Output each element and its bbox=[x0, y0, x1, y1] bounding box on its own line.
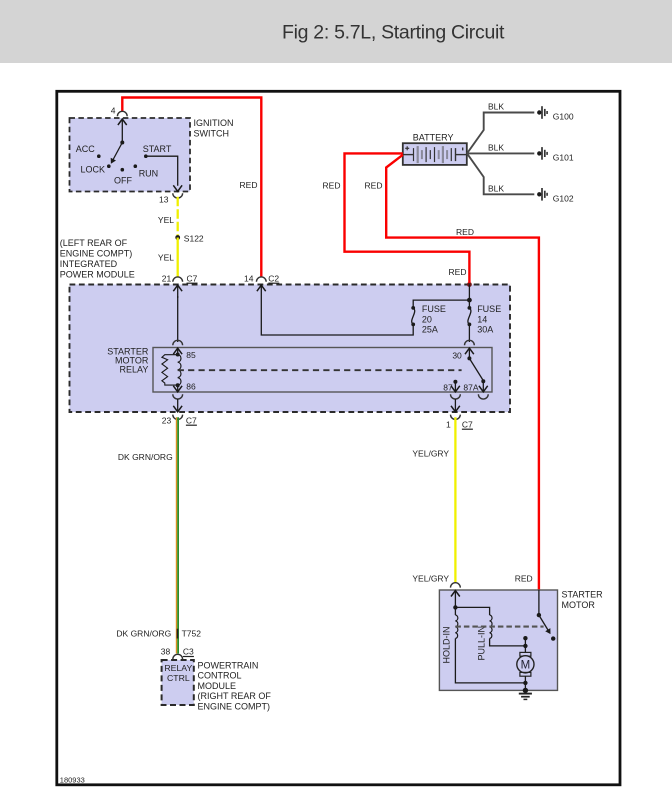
svg-text:G102: G102 bbox=[553, 193, 574, 203]
relay coil winding bbox=[178, 355, 181, 386]
arrow module pin 1 bbox=[451, 406, 460, 412]
svg-text:LOCK: LOCK bbox=[81, 164, 106, 174]
battery box bbox=[403, 143, 467, 165]
battery feed junction dot at module edge bbox=[467, 282, 472, 287]
svg-text:YEL: YEL bbox=[158, 215, 174, 225]
svg-text:CTRL: CTRL bbox=[167, 673, 190, 683]
svg-text:YEL/GRY: YEL/GRY bbox=[412, 449, 449, 459]
wire red battery to module bbox=[345, 153, 470, 283]
arrow starter entry bbox=[451, 591, 460, 597]
svg-text:S122: S122 bbox=[184, 233, 204, 243]
wire battery feed to fuses bbox=[468, 285, 470, 309]
connector arc pin 14 C2 bbox=[256, 277, 266, 282]
battery minus mark bbox=[462, 148, 464, 151]
connector arc pin 85 bbox=[173, 340, 183, 345]
hold-in coil bbox=[454, 607, 456, 615]
connector arc pin 38 C3 bbox=[173, 654, 183, 659]
motor feed node dot bbox=[523, 636, 527, 640]
starter ground symbol bbox=[519, 693, 532, 695]
svg-text:C7: C7 bbox=[187, 273, 198, 283]
starter motor relay box bbox=[153, 348, 492, 393]
relay pin 30 node dot bbox=[467, 356, 471, 360]
wire pull-in to motor bbox=[490, 639, 526, 646]
svg-text:RED: RED bbox=[323, 181, 341, 191]
svg-text:14: 14 bbox=[477, 314, 487, 324]
ground node dot at box edge bbox=[523, 688, 528, 693]
wire red battery to starter bbox=[386, 155, 539, 590]
header band bbox=[0, 0, 672, 63]
svg-text:POWERTRAIN: POWERTRAIN bbox=[198, 661, 259, 671]
svg-text:FUSE: FUSE bbox=[477, 304, 501, 314]
svg-text:INTEGRATED: INTEGRATED bbox=[60, 259, 118, 269]
svg-text:DK GRN/ORG: DK GRN/ORG bbox=[116, 629, 171, 639]
svg-text:ACC: ACC bbox=[76, 144, 96, 154]
svg-text:25A: 25A bbox=[422, 325, 438, 335]
contact dot START bbox=[144, 154, 148, 158]
relay mechanical link bbox=[178, 369, 462, 371]
wire branch to fuse 20 bbox=[413, 300, 469, 308]
wire BLK to G101 bbox=[467, 152, 534, 154]
wire pin 21 to relay pin 85 bbox=[177, 296, 179, 342]
svg-text:20: 20 bbox=[422, 314, 432, 324]
border frame bbox=[57, 91, 620, 785]
wire red entry to switch bbox=[538, 590, 540, 615]
starter switch arm bbox=[539, 615, 549, 631]
wire DK GRN/ORG orange stripe bbox=[176, 417, 178, 653]
svg-text:G101: G101 bbox=[553, 152, 574, 162]
svg-text:87A: 87A bbox=[463, 382, 478, 392]
svg-text:BLK: BLK bbox=[488, 102, 504, 112]
svg-text:IGNITION: IGNITION bbox=[194, 118, 234, 128]
svg-text:G100: G100 bbox=[553, 111, 574, 121]
switch pivot dot bbox=[120, 141, 124, 145]
svg-text:RED: RED bbox=[456, 227, 474, 237]
ignition switch box bbox=[70, 118, 191, 192]
svg-text:RED: RED bbox=[515, 574, 533, 584]
wire motor to ground bbox=[524, 676, 526, 690]
svg-text:ENGINE COMPT): ENGINE COMPT) bbox=[60, 249, 133, 259]
svg-text:21: 21 bbox=[162, 273, 172, 283]
arrow pin 86 bbox=[173, 386, 182, 392]
arrow pin 14 bbox=[257, 285, 266, 291]
svg-text:(RIGHT REAR OF: (RIGHT REAR OF bbox=[198, 691, 272, 701]
wire 87 to module edge bbox=[454, 399, 456, 412]
wire branch to pull-in bbox=[455, 607, 489, 615]
svg-text:YEL/GRY: YEL/GRY bbox=[412, 574, 449, 584]
svg-text:BLK: BLK bbox=[488, 143, 504, 153]
wire motor feed bbox=[524, 638, 526, 652]
svg-text:30A: 30A bbox=[477, 325, 493, 335]
svg-text:STARTER: STARTER bbox=[562, 590, 604, 600]
svg-text:13: 13 bbox=[159, 194, 169, 204]
svg-text:180933: 180933 bbox=[60, 776, 85, 785]
svg-text:C7: C7 bbox=[186, 415, 197, 425]
relay coil pin 86 dot bbox=[176, 383, 180, 387]
starter motor box bbox=[439, 590, 557, 690]
svg-text:ENGINE COMPT): ENGINE COMPT) bbox=[198, 701, 271, 711]
connector arc pin 1 C7 bbox=[451, 415, 461, 420]
svg-text:SWITCH: SWITCH bbox=[194, 129, 230, 139]
arrow pin 13 bbox=[173, 185, 182, 191]
contact dot ACC bbox=[97, 154, 101, 158]
contact dot RUN bbox=[134, 164, 138, 168]
fuse 20 bbox=[411, 306, 415, 310]
pull-in coil bbox=[490, 615, 492, 639]
arrow pin 85 bbox=[173, 348, 182, 354]
fuse 14 bbox=[468, 306, 472, 310]
svg-text:BLK: BLK bbox=[488, 183, 504, 193]
starter switch pivot dot bbox=[537, 613, 541, 617]
junction node fuse feed bbox=[467, 298, 472, 303]
battery plus sign bbox=[405, 147, 409, 149]
contact dot LOCK bbox=[107, 164, 111, 168]
arrow pin 21 bbox=[173, 285, 182, 291]
wire pin 14 to fuse 20 bbox=[261, 285, 413, 335]
svg-text:YEL: YEL bbox=[158, 253, 174, 263]
connector arc starter yellow entry bbox=[451, 583, 461, 588]
svg-text:HOLD-IN: HOLD-IN bbox=[442, 626, 452, 663]
wire pin 87 down bbox=[454, 382, 456, 392]
ground G100 bbox=[537, 110, 541, 114]
svg-text:C3: C3 bbox=[183, 647, 194, 657]
relay contact 87 dot bbox=[453, 380, 457, 384]
wire START to pin 13 bbox=[146, 156, 178, 186]
ground junction dot bbox=[523, 681, 527, 685]
svg-text:RED: RED bbox=[365, 181, 383, 191]
svg-text:86: 86 bbox=[186, 381, 196, 391]
arrow pin 4 bbox=[118, 119, 127, 125]
svg-text:T752: T752 bbox=[182, 629, 202, 639]
battery cells bbox=[403, 154, 414, 156]
wire pin 87A down bbox=[482, 381, 484, 391]
svg-text:Fig 2: 5.7L, Starting Circuit: Fig 2: 5.7L, Starting Circuit bbox=[282, 22, 505, 44]
svg-text:(LEFT REAR OF: (LEFT REAR OF bbox=[60, 238, 128, 248]
wire YEL dashed bbox=[177, 197, 179, 238]
svg-text:M: M bbox=[521, 659, 531, 671]
svg-text:C2: C2 bbox=[268, 273, 279, 283]
starter mechanical link bbox=[455, 626, 543, 628]
svg-text:START: START bbox=[143, 144, 172, 154]
splice S122 bbox=[175, 235, 180, 240]
wire YEL/GRY bbox=[454, 417, 456, 582]
wire fuse 14 to relay pin 30 bbox=[468, 324, 470, 342]
connector arc pin 87 bbox=[451, 394, 461, 399]
wire DK GRN/ORG green bbox=[177, 417, 179, 653]
wire red from ignition pin 4 to pin 14 C2 bbox=[122, 98, 261, 278]
svg-text:OFF: OFF bbox=[114, 175, 132, 185]
svg-text:MODULE: MODULE bbox=[198, 681, 237, 691]
connector arc pin 21 C7 bbox=[173, 277, 183, 282]
connector arc pin 87A bbox=[478, 394, 488, 399]
svg-text:FUSE: FUSE bbox=[422, 304, 446, 314]
svg-text:PULL-IN: PULL-IN bbox=[477, 626, 487, 661]
svg-text:RED: RED bbox=[240, 180, 258, 190]
takeout tick T752 bbox=[177, 629, 179, 639]
svg-text:23: 23 bbox=[162, 415, 172, 425]
wire BLK to G100 bbox=[467, 113, 534, 154]
wire YEL solid bbox=[177, 238, 179, 277]
relay coil resistor bbox=[162, 355, 178, 385]
connector arc pin 4 bbox=[117, 111, 127, 116]
svg-text:POWER MODULE: POWER MODULE bbox=[60, 270, 135, 280]
wire pin 86 down bbox=[177, 385, 179, 391]
svg-text:RELAY: RELAY bbox=[120, 365, 149, 375]
connector arc pin 13 bbox=[173, 193, 183, 198]
powertrain control module box bbox=[162, 660, 194, 705]
arrow pin 30 bbox=[465, 348, 474, 354]
starter switch contact dot bbox=[551, 636, 555, 640]
svg-text:4: 4 bbox=[111, 106, 116, 116]
contact dot OFF bbox=[121, 168, 125, 172]
relay switch arm bbox=[469, 358, 483, 380]
connector arc pin 86 bbox=[173, 394, 183, 399]
svg-text:85: 85 bbox=[186, 350, 196, 360]
arrow module pin 23 bbox=[173, 406, 182, 412]
integrated power module box bbox=[70, 285, 511, 413]
svg-text:38: 38 bbox=[161, 647, 171, 657]
motor M1 bbox=[520, 652, 531, 656]
connector arc pin 23 C7 bbox=[173, 415, 183, 420]
switch arm to LOCK bbox=[113, 143, 123, 161]
svg-text:14: 14 bbox=[244, 273, 254, 283]
relay coil pin 85 dot bbox=[176, 353, 180, 357]
wire 86 to module edge bbox=[177, 399, 179, 412]
wire hold-in return bbox=[455, 639, 525, 683]
svg-text:RELAY: RELAY bbox=[164, 663, 192, 673]
svg-text:CONTROL: CONTROL bbox=[198, 671, 242, 681]
svg-text:MOTOR: MOTOR bbox=[562, 600, 596, 610]
svg-text:C7: C7 bbox=[462, 419, 473, 429]
relay contact 87A dot bbox=[481, 379, 485, 383]
wire BLK to G102 bbox=[467, 153, 534, 194]
svg-text:BATTERY: BATTERY bbox=[413, 133, 454, 143]
connector arc pin 30 bbox=[465, 340, 475, 345]
pull-in junction dot bbox=[523, 644, 527, 648]
starter junction dot bbox=[453, 605, 457, 609]
svg-text:1: 1 bbox=[446, 419, 451, 429]
svg-text:30: 30 bbox=[452, 351, 462, 361]
svg-text:DK GRN/ORG: DK GRN/ORG bbox=[118, 452, 173, 462]
svg-text:RUN: RUN bbox=[139, 168, 159, 178]
ground G102 bbox=[537, 192, 541, 196]
svg-text:RED: RED bbox=[449, 267, 467, 277]
ground G101 bbox=[537, 151, 541, 155]
